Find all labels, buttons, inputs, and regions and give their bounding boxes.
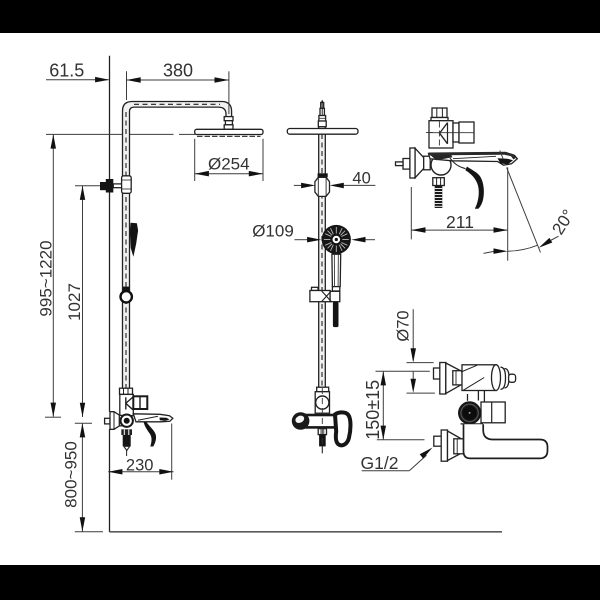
svg-text:230: 230 [126, 457, 154, 475]
svg-text:1027: 1027 [65, 283, 84, 321]
svg-text:380: 380 [163, 61, 193, 81]
svg-text:Ø70: Ø70 [395, 310, 413, 341]
svg-text:40: 40 [352, 169, 370, 187]
svg-text:150±15: 150±15 [363, 380, 383, 440]
svg-text:G1/2: G1/2 [361, 453, 399, 473]
svg-text:211: 211 [446, 212, 474, 232]
svg-text:61.5: 61.5 [49, 61, 84, 81]
svg-text:800~950: 800~950 [62, 441, 81, 508]
svg-text:Ø109: Ø109 [252, 222, 294, 241]
svg-text:995~1220: 995~1220 [37, 240, 56, 316]
svg-text:Ø254: Ø254 [208, 154, 250, 173]
